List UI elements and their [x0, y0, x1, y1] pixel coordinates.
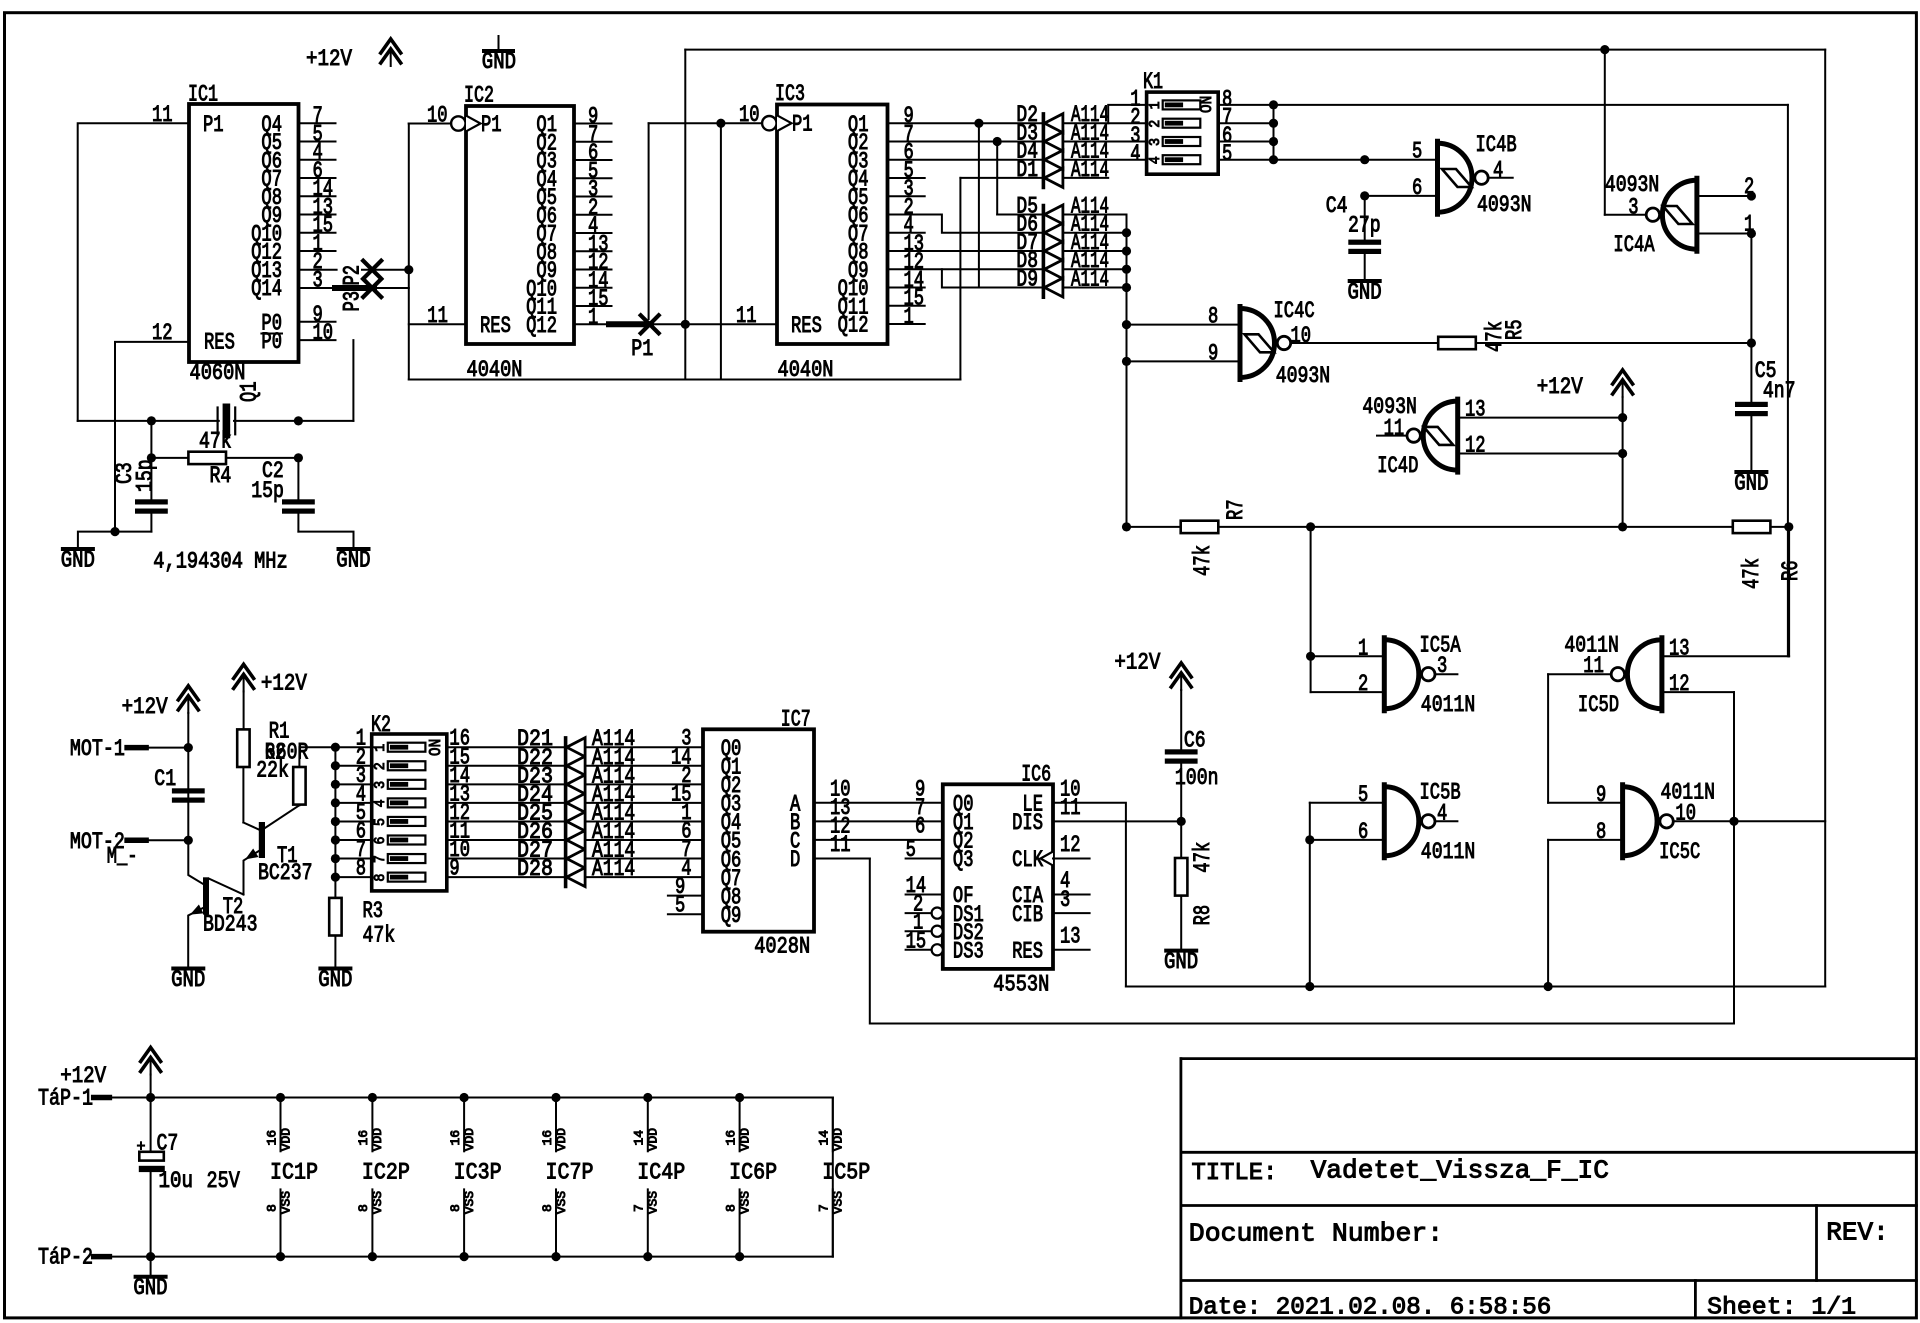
svg-text:VSS: VSS [463, 1191, 477, 1214]
svg-text:P1: P1 [792, 112, 813, 138]
svg-text:IC4D: IC4D [1377, 453, 1418, 479]
svg-text:BD243: BD243 [203, 912, 258, 938]
svg-text:15p: 15p [251, 478, 284, 504]
svg-text:TITLE:: TITLE: [1192, 1160, 1278, 1187]
svg-text:C1: C1 [154, 766, 176, 792]
svg-text:47k: 47k [1190, 842, 1216, 873]
svg-text:5: 5 [1358, 782, 1368, 808]
svg-text:IC4C: IC4C [1274, 298, 1315, 324]
svg-text:1: 1 [1744, 212, 1754, 238]
svg-text:1: 1 [588, 304, 598, 330]
svg-text:VSS: VSS [279, 1191, 293, 1214]
svg-text:8: 8 [724, 1204, 738, 1212]
svg-text:3: 3 [1147, 138, 1164, 146]
svg-text:GND: GND [1348, 280, 1382, 306]
svg-text:R6: R6 [1778, 560, 1804, 581]
svg-text:IC3P: IC3P [454, 1160, 502, 1186]
svg-text:+12V: +12V [306, 46, 352, 72]
svg-text:22k: 22k [256, 758, 289, 784]
svg-text:5: 5 [1412, 139, 1422, 165]
svg-text:9: 9 [1596, 782, 1606, 808]
svg-text:Vadetet_Vissza_F_IC: Vadetet_Vissza_F_IC [1311, 1156, 1609, 1186]
svg-text:7: 7 [633, 1204, 647, 1212]
svg-text:RES: RES [791, 313, 822, 339]
svg-text:P1: P1 [203, 112, 224, 138]
svg-text:BC237: BC237 [258, 860, 313, 886]
svg-text:GND: GND [1164, 949, 1198, 975]
svg-text:3: 3 [1437, 653, 1447, 679]
svg-text:4: 4 [1437, 800, 1447, 826]
svg-text:C6: C6 [1184, 728, 1206, 754]
svg-text:IC7P: IC7P [546, 1160, 594, 1186]
svg-text:CLK: CLK [1012, 847, 1043, 873]
svg-text:8: 8 [1596, 819, 1606, 845]
svg-text:IC6: IC6 [1021, 762, 1051, 788]
svg-text:VDD: VDD [463, 1128, 477, 1151]
svg-text:VSS: VSS [371, 1191, 385, 1214]
svg-text:11: 11 [427, 303, 448, 329]
svg-text:IC4A: IC4A [1613, 232, 1654, 258]
svg-text:15: 15 [906, 928, 927, 954]
svg-text:Q3: Q3 [953, 847, 974, 873]
svg-text:4: 4 [1493, 158, 1503, 184]
svg-text:4: 4 [1130, 141, 1140, 167]
svg-text:A114: A114 [592, 856, 635, 882]
svg-text:10: 10 [1675, 800, 1696, 826]
svg-text:IC2P: IC2P [362, 1160, 410, 1186]
svg-text:10: 10 [1291, 323, 1312, 349]
svg-text:R8: R8 [1190, 905, 1216, 926]
svg-text:2: 2 [1744, 174, 1754, 200]
svg-text:16: 16 [449, 1130, 463, 1146]
svg-text:16: 16 [357, 1130, 371, 1146]
svg-text:VSS: VSS [832, 1191, 846, 1214]
svg-text:RES: RES [204, 329, 235, 355]
svg-text:11: 11 [830, 832, 851, 858]
svg-text:CIB: CIB [1012, 902, 1043, 928]
svg-text:K2: K2 [371, 712, 391, 738]
svg-text:13: 13 [1060, 924, 1081, 950]
svg-text:R7: R7 [1223, 499, 1249, 520]
svg-text:IC1: IC1 [188, 82, 218, 108]
svg-text:7: 7 [818, 1204, 832, 1212]
svg-text:Date: 2021.02.08. 6:58:56: Date: 2021.02.08. 6:58:56 [1189, 1295, 1552, 1322]
svg-text:6: 6 [372, 837, 389, 845]
svg-text:1: 1 [372, 744, 389, 752]
svg-text:DIS: DIS [1012, 810, 1043, 836]
svg-text:3: 3 [1060, 887, 1070, 913]
svg-text:13: 13 [1465, 397, 1486, 423]
svg-text:Q9: Q9 [721, 903, 742, 929]
svg-text:IC2: IC2 [464, 83, 494, 109]
svg-text:VSS: VSS [647, 1191, 661, 1214]
svg-text:C4: C4 [1326, 193, 1348, 219]
svg-text:+12V: +12V [1537, 374, 1583, 400]
svg-text:2: 2 [1358, 671, 1368, 697]
svg-text:D1: D1 [1016, 157, 1038, 183]
svg-text:P1: P1 [481, 112, 502, 138]
svg-text:5: 5 [372, 818, 389, 826]
svg-text:4: 4 [372, 799, 389, 807]
svg-text:6: 6 [1412, 175, 1422, 201]
svg-text:11: 11 [1583, 653, 1604, 679]
svg-text:6: 6 [1358, 819, 1368, 845]
svg-text:ON: ON [427, 739, 446, 756]
svg-text:8: 8 [357, 1204, 371, 1212]
svg-text:2: 2 [372, 762, 389, 770]
svg-text:P1: P1 [631, 336, 653, 362]
svg-text:RES: RES [1012, 939, 1043, 965]
svg-text:100n: 100n [1175, 765, 1219, 791]
svg-text:GND: GND [133, 1275, 167, 1301]
svg-text:IC1P: IC1P [270, 1160, 318, 1186]
svg-text:VSS: VSS [555, 1191, 569, 1214]
svg-text:P3: P3 [340, 291, 366, 312]
svg-text:Q12: Q12 [526, 313, 557, 339]
svg-text:14: 14 [633, 1130, 647, 1146]
svg-text:IC5D: IC5D [1578, 692, 1619, 718]
svg-text:A114: A114 [1071, 157, 1109, 183]
svg-text:10: 10 [313, 320, 334, 346]
svg-text:8: 8 [449, 1204, 463, 1212]
svg-text:IC3: IC3 [775, 81, 805, 107]
svg-text:8: 8 [372, 874, 389, 882]
svg-text:C7: C7 [157, 1131, 179, 1157]
svg-text:16: 16 [724, 1130, 738, 1146]
svg-text:GND: GND [336, 548, 370, 574]
svg-text:14: 14 [818, 1130, 832, 1146]
svg-text:IC4B: IC4B [1476, 132, 1517, 158]
svg-text:4011N: 4011N [1421, 692, 1476, 718]
svg-text:15p: 15p [133, 459, 159, 492]
svg-text:+12V: +12V [261, 671, 307, 697]
svg-text:10u: 10u [159, 1168, 194, 1194]
svg-text:1: 1 [1358, 635, 1368, 661]
svg-text:4n7: 4n7 [1763, 378, 1796, 404]
svg-text:27p: 27p [1348, 213, 1381, 239]
svg-text:D9: D9 [1016, 266, 1038, 292]
svg-text:4093N: 4093N [1477, 192, 1532, 218]
svg-text:8: 8 [265, 1204, 279, 1212]
svg-text:11: 11 [1384, 416, 1405, 442]
svg-text:RES: RES [480, 313, 511, 339]
svg-text:4553N: 4553N [993, 972, 1049, 998]
svg-text:9: 9 [1208, 340, 1218, 366]
svg-text:13: 13 [1669, 635, 1690, 661]
svg-text:10: 10 [427, 103, 448, 129]
svg-text:47k: 47k [199, 428, 232, 454]
svg-text:3: 3 [1628, 195, 1638, 221]
svg-text:R3: R3 [363, 898, 384, 924]
svg-text:2: 2 [1147, 120, 1164, 128]
svg-text:16: 16 [541, 1130, 555, 1146]
svg-text:11: 11 [1060, 795, 1081, 821]
svg-text:VSS: VSS [738, 1191, 752, 1214]
svg-text:IC5C: IC5C [1659, 839, 1700, 865]
svg-text:47k: 47k [1739, 558, 1765, 589]
svg-text:5: 5 [1222, 141, 1232, 167]
svg-text:VDD: VDD [738, 1128, 752, 1151]
svg-text:3: 3 [313, 267, 323, 293]
svg-text:GND: GND [318, 967, 352, 993]
svg-text:Document Number:: Document Number: [1189, 1219, 1443, 1249]
svg-text:+12V: +12V [122, 694, 168, 720]
svg-text:12: 12 [1465, 433, 1486, 459]
svg-text:VDD: VDD [555, 1128, 569, 1151]
svg-text:7: 7 [372, 855, 389, 863]
svg-text:ON: ON [1198, 96, 1217, 113]
svg-text:IC4P: IC4P [637, 1160, 685, 1186]
svg-text:IC6P: IC6P [729, 1160, 777, 1186]
svg-text:TáP-1: TáP-1 [38, 1086, 93, 1112]
svg-text:3: 3 [372, 781, 389, 789]
svg-text:DS3: DS3 [953, 939, 984, 965]
svg-text:Q12: Q12 [838, 313, 869, 339]
svg-text:25V: 25V [207, 1168, 240, 1194]
svg-text:4: 4 [1147, 156, 1164, 164]
svg-text:P2: P2 [340, 265, 366, 286]
svg-text:Q14: Q14 [251, 276, 282, 302]
svg-text:D28: D28 [517, 856, 553, 882]
svg-text:8: 8 [541, 1204, 555, 1212]
svg-text:4011N: 4011N [1421, 839, 1476, 865]
svg-text:Q1: Q1 [237, 381, 263, 402]
svg-text:4,194304 MHz: 4,194304 MHz [153, 549, 287, 575]
svg-text:GND: GND [171, 967, 205, 993]
svg-text:16: 16 [265, 1130, 279, 1146]
svg-text:M_-: M_- [107, 844, 138, 870]
svg-text:47k: 47k [1190, 545, 1216, 576]
svg-text:47k: 47k [363, 923, 396, 949]
svg-text:A114: A114 [1071, 266, 1109, 292]
svg-text:5: 5 [675, 893, 685, 919]
svg-text:4040N: 4040N [778, 357, 834, 383]
svg-text:6: 6 [915, 814, 925, 840]
svg-text:D: D [790, 847, 800, 873]
svg-text:8: 8 [1208, 304, 1218, 330]
svg-text:K1: K1 [1143, 69, 1163, 95]
svg-text:12: 12 [1669, 671, 1690, 697]
svg-text:4093N: 4093N [1276, 363, 1331, 389]
svg-text:GND: GND [61, 548, 95, 574]
svg-text:IC7: IC7 [781, 707, 811, 733]
svg-text:GND: GND [1734, 471, 1768, 497]
svg-text:VDD: VDD [279, 1128, 293, 1151]
svg-text:R5: R5 [1502, 319, 1528, 340]
svg-text:GND: GND [482, 49, 516, 75]
svg-text:REV:: REV: [1826, 1218, 1888, 1248]
svg-text:R4: R4 [210, 463, 232, 489]
svg-text:1: 1 [1147, 101, 1164, 109]
svg-text:MOT-1: MOT-1 [70, 736, 125, 762]
svg-text:+12V: +12V [1114, 649, 1160, 675]
svg-text:4028N: 4028N [754, 934, 810, 960]
svg-text:IC5P: IC5P [822, 1160, 870, 1186]
svg-text:1: 1 [904, 304, 914, 330]
svg-text:VDD: VDD [647, 1128, 661, 1151]
svg-text:VDD: VDD [832, 1128, 846, 1151]
svg-text:TáP-2: TáP-2 [38, 1245, 93, 1271]
svg-text:VDD: VDD [371, 1128, 385, 1151]
svg-text:12: 12 [1060, 832, 1081, 858]
svg-text:Sheet: 1/1: Sheet: 1/1 [1707, 1295, 1856, 1322]
